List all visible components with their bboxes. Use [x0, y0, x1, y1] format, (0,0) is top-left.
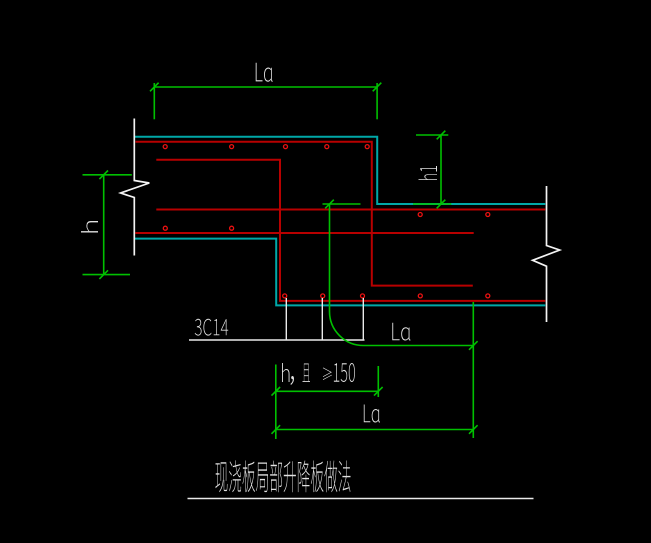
text comma after h	[291, 376, 295, 385]
rebar - upper slab top bar bent down the step and lapping along lower slab bottom	[136, 142, 473, 286]
title text - cast-in-place slab local raised/lowered slab detail	[215, 460, 350, 492]
dimension h-and-at-least-150 - dimension line with slash ticks and extension lines	[272, 365, 383, 440]
text label 3C14 (bar callout)	[195, 319, 229, 336]
leader line from third bottom bar section to 3C14 label	[362, 298, 364, 340]
text label La (bottom dimension)	[364, 405, 380, 423]
text label h (left dimension, rotated)	[81, 221, 98, 233]
dimension La (top) - dimension line with slash ticks and extension lines	[150, 83, 381, 120]
dimension h (left) - dimension line with slash ticks and extension stubs	[83, 171, 132, 279]
leader line from second bottom bar section to 3C14 label	[321, 298, 323, 340]
title underline	[188, 498, 534, 500]
concrete slab outline - upper slab soffit stepping down to lower slab soffit	[135, 239, 545, 306]
rebar - second upper bar bent down at the drop, running along lower slab bottom	[156, 160, 545, 301]
break line - left edge of upper slab	[121, 119, 150, 256]
dimension La (middle) - curved leader from lower slab top level hooking into dimension line	[323, 200, 478, 438]
text qie (Chinese: and)	[303, 364, 311, 383]
text 150 value	[334, 363, 355, 382]
distribution bar sections - lower slab bottom	[283, 294, 490, 298]
text label h of minimum dimension	[282, 363, 290, 382]
dimension La (bottom) - dimension line with slash ticks	[272, 425, 478, 434]
break line - right edge of lower slab	[533, 186, 560, 322]
distribution bar sections - lower slab top	[418, 213, 490, 217]
rebar - lower slab top bar extending into upper slab	[156, 209, 545, 211]
distribution bar sections - upper slab bottom	[163, 226, 233, 230]
text greater-or-equal 150	[323, 368, 332, 381]
label leader underline for 3C14	[189, 339, 365, 341]
rebar - upper slab bottom bar extending over lower slab	[135, 232, 473, 234]
text label La (top dimension)	[256, 63, 273, 82]
text label h1 (step dimension, rotated)	[419, 166, 438, 180]
concrete slab outline - upper slab top surface stepping down to lower slab top	[135, 137, 545, 204]
dimension h1 (step height) - dimension line with slash ticks and extension stubs	[413, 131, 451, 209]
distribution bar sections - upper slab top	[163, 145, 369, 149]
leader line from first bottom bar section to 3C14 label	[285, 298, 287, 340]
text label La (middle dimension)	[392, 323, 410, 341]
